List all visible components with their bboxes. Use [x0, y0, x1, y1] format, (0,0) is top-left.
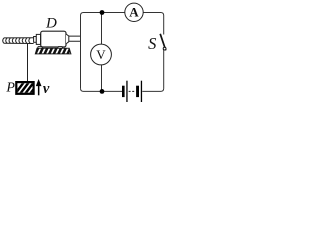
battery cell 2 positive plate [141, 81, 142, 102]
weight P block (hatched) [14, 82, 40, 96]
motor chuck [36, 34, 40, 44]
svg-text:V: V [96, 47, 106, 62]
wire outer loop (left, top, right, bottom with switch gap) [81, 13, 164, 92]
voltmeter branch wire lower [101, 65, 103, 92]
motor mounting feet [37, 47, 62, 49]
wire top [81, 13, 164, 16]
wire right upper (to switch) [163, 16, 165, 35]
battery cell 1 positive plate [126, 81, 127, 102]
switch S blade [160, 34, 166, 51]
voltmeter V [91, 44, 112, 65]
ammeter A [125, 3, 143, 21]
wire right lower (from switch) [163, 50, 165, 89]
motor base hatched platform [35, 48, 71, 55]
motor shaft nub [34, 37, 37, 43]
battery dashed link [129, 90, 136, 92]
junction node top [100, 10, 105, 15]
svg-text:S: S [148, 34, 156, 53]
motor D body [41, 31, 66, 47]
svg-text:P: P [5, 81, 15, 96]
motor right end cap [66, 34, 69, 44]
voltmeter branch wire upper [101, 13, 103, 45]
switch lower contact [163, 47, 166, 50]
motor terminal leads to circuit [69, 36, 81, 41]
rope string to weight [27, 44, 29, 82]
svg-text:A: A [129, 5, 139, 20]
wire left [80, 16, 82, 89]
junction node bottom [100, 89, 105, 94]
velocity arrow v [36, 79, 42, 95]
battery cell 1 negative plate [122, 86, 125, 97]
svg-text:D: D [45, 15, 57, 31]
svg-text:v: v [43, 81, 50, 97]
wire bottom [81, 88, 164, 91]
winding drum axle of motor [3, 38, 34, 44]
battery cell 2 negative plate [136, 86, 139, 97]
